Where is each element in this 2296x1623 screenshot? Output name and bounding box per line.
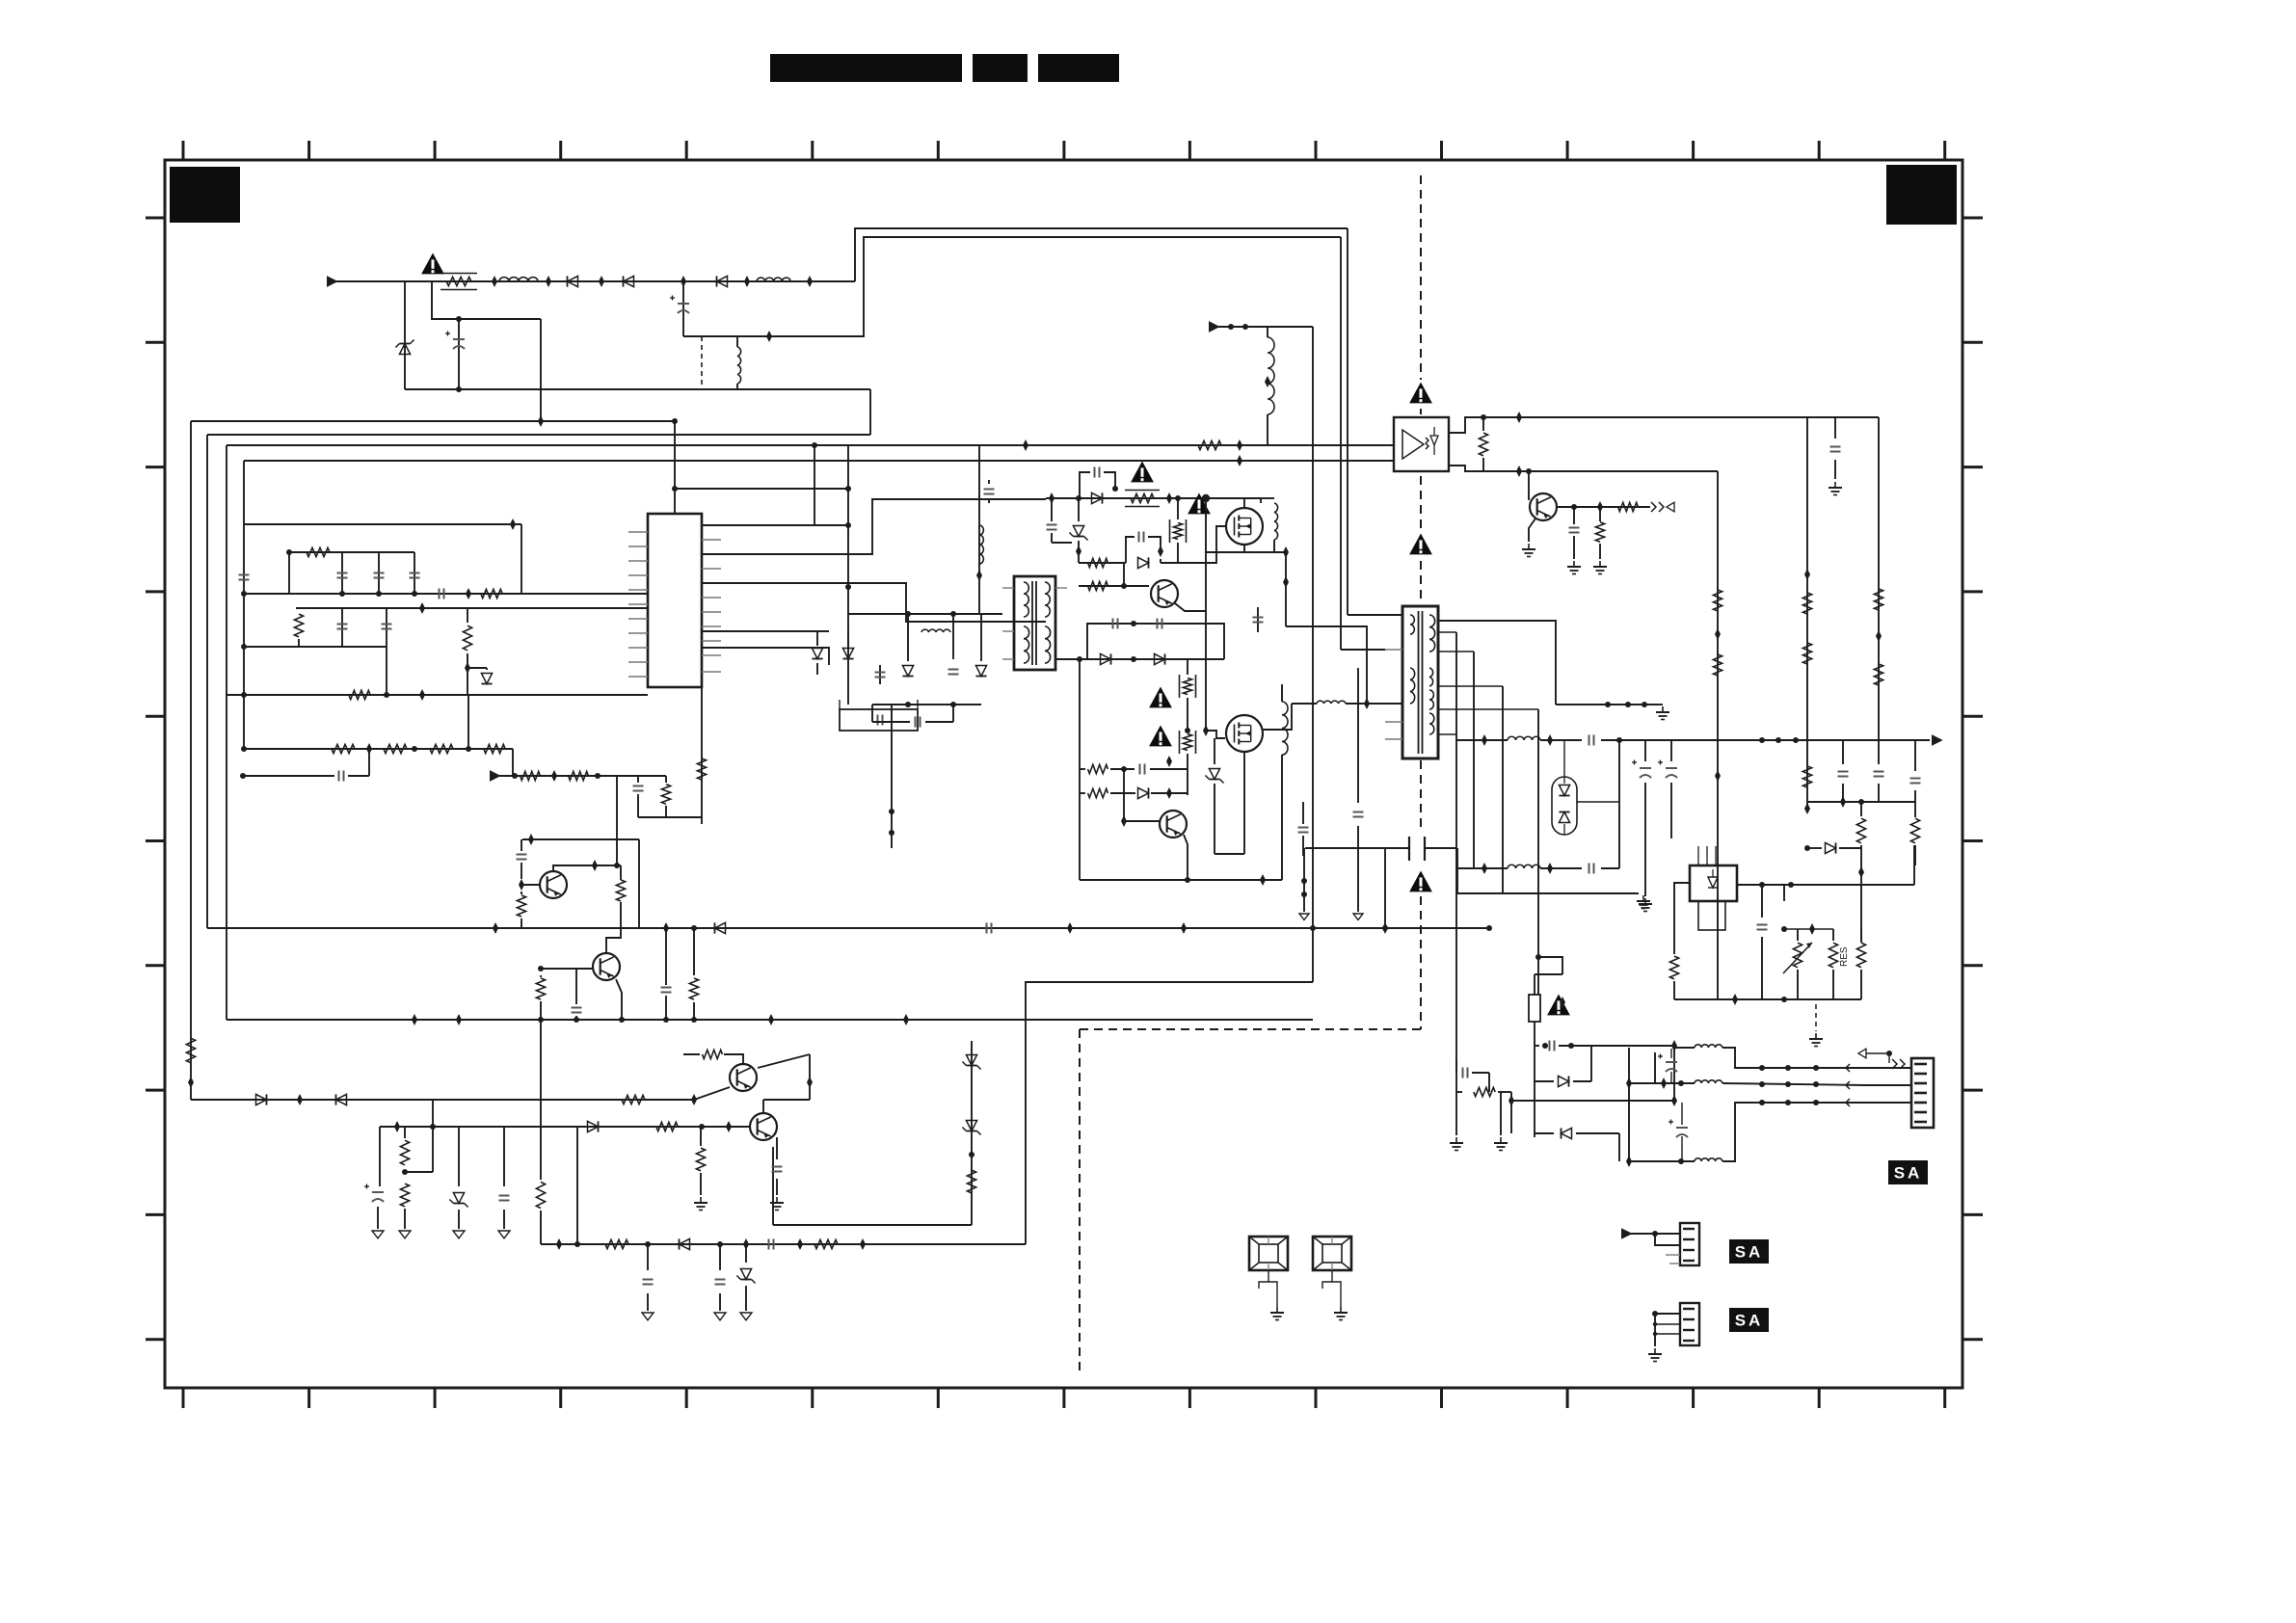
divider x1875 — [1806, 417, 1808, 809]
black square top-right — [1886, 165, 1957, 225]
bottom rail y1291 — [540, 1211, 542, 1244]
secondary top rail y731 — [1438, 621, 1556, 705]
harness line3 from below — [1629, 1160, 1695, 1162]
junction diamond y349 — [766, 331, 772, 342]
junction diamonds y1058 — [412, 1014, 417, 1025]
resistor R831 — [620, 865, 622, 880]
arrow signal out top — [1858, 1049, 1866, 1058]
zener D871 — [458, 1127, 460, 1186]
resistor inline B3 — [1198, 440, 1221, 449]
wire rail up corner — [855, 228, 1348, 281]
opto right bottom wire y489 — [1449, 466, 1718, 471]
resistor R841 — [1595, 522, 1604, 542]
pins above U803 — [1697, 846, 1699, 865]
inductor L801 — [499, 278, 538, 281]
junction y963 diamond — [1382, 922, 1388, 934]
cap loop y557 — [1126, 537, 1135, 563]
transistor Q809 — [1151, 580, 1178, 607]
pad symbol P1 — [1249, 1237, 1288, 1270]
resistor R830 — [517, 895, 525, 917]
driver transformer T801 — [1014, 576, 1055, 670]
U803 small box below — [1698, 901, 1725, 930]
resistor R825 — [569, 771, 589, 780]
connector CN802 — [1680, 1223, 1699, 1265]
choke top mosfet — [1260, 498, 1262, 503]
electrolytic C896 — [1681, 1103, 1683, 1125]
potentiometer RV1 — [1793, 943, 1802, 968]
cap C890 x1511 bottom — [1455, 1060, 1457, 1073]
emitter Q806 to gnd — [1529, 519, 1535, 542]
wire y507 from IC top — [672, 486, 678, 492]
dashed stub — [701, 336, 703, 389]
CN803 wires — [1652, 1311, 1658, 1317]
wire IC right to x880 — [702, 524, 848, 526]
open arrow returns — [1303, 848, 1305, 912]
IC pin stubs left — [628, 531, 648, 533]
resistor R826 vertical — [661, 785, 670, 804]
SA badge 1 — [1888, 1160, 1928, 1184]
gate wire Q804 — [1206, 731, 1225, 738]
bus vertical x=253 — [243, 461, 245, 749]
secondary bottom y927 — [1457, 892, 1639, 894]
bottom rail y913 — [1080, 879, 1282, 881]
harness line1 — [1674, 1047, 1695, 1049]
diode D815 — [1092, 492, 1103, 503]
fusible resistor R816 — [1131, 493, 1154, 502]
resistor pair x420 — [400, 1140, 409, 1165]
gate drive wire A — [702, 499, 1046, 554]
primary feed inductor y730 — [1292, 703, 1317, 705]
resistor row y=777 — [244, 748, 513, 750]
resistors R820-R823 — [332, 744, 355, 753]
resistor hanging x720 — [693, 928, 695, 975]
wire from x1596 corner — [1538, 957, 1562, 974]
junction diamonds B3 B4 — [1237, 439, 1242, 451]
MOSFET Q803 — [1226, 508, 1263, 545]
cap C840 — [948, 669, 959, 671]
cap C861 at x1904 — [1834, 417, 1836, 439]
cap row y647 — [1087, 624, 1224, 659]
transistor Q805 driver low — [1160, 811, 1187, 838]
arrow line y=805 — [490, 770, 501, 782]
RC ladder row1 wire — [244, 523, 521, 525]
gate wire to mosfet — [1178, 526, 1226, 563]
vertical x802 up — [772, 1147, 774, 1225]
wire drop to C802 — [432, 281, 541, 319]
long vertical x1362 — [1312, 327, 1314, 982]
cap inline y963 — [986, 923, 988, 934]
rail y=1019 junction — [1310, 925, 1316, 931]
resistor R824 — [521, 771, 541, 780]
row y805 left cap — [243, 775, 334, 777]
diode D820 — [902, 666, 913, 677]
caps under rail right — [1842, 740, 1844, 764]
inductor L802 — [757, 278, 790, 281]
cap C851 — [1302, 802, 1304, 824]
vertical x486 from ladder — [467, 695, 469, 749]
resistor R873 — [605, 1239, 628, 1248]
junction node y805 — [551, 770, 557, 782]
collector wire y526 — [1557, 506, 1650, 508]
optocoupler U802 — [1394, 417, 1449, 471]
emitter Q802 wire — [616, 979, 622, 1020]
vertical x925 drop — [891, 705, 893, 848]
svg-text:SA: SA — [1735, 1243, 1764, 1262]
left leg cap — [1051, 498, 1053, 521]
caps on row1 — [341, 552, 343, 594]
vertical link x1437 — [1384, 848, 1386, 928]
vertical x1251 gate link — [1205, 675, 1207, 731]
diode D860 — [1535, 1080, 1554, 1082]
junction on B1 — [538, 415, 544, 427]
harness line2 — [1629, 1082, 1695, 1084]
wire regulator left loop — [1674, 883, 1690, 954]
caps to open gnd below y1291 — [647, 1244, 649, 1270]
wire x561 long vertical VCC rail — [540, 319, 542, 421]
resistor R850 — [1669, 956, 1678, 979]
vertical base x1166 — [1123, 769, 1125, 821]
arrow node feed y339 — [1209, 321, 1220, 333]
snubber diodes — [814, 445, 815, 525]
junction diamonds on mains rail — [492, 276, 497, 287]
resistor R813 — [349, 690, 370, 699]
SA badge 2 — [1729, 1239, 1769, 1264]
T802 pin stubs left — [1385, 649, 1402, 651]
zener D873 — [770, 1243, 772, 1245]
secondary rect line y768 — [1456, 739, 1508, 741]
IC U801 control PWM — [648, 514, 702, 687]
diode feed Q808 — [588, 1121, 599, 1131]
elcap C875 — [379, 1127, 381, 1186]
vertical x880 — [847, 445, 849, 705]
resistor R840 — [1479, 433, 1487, 456]
svg-text:RES: RES — [1839, 946, 1850, 967]
bus vertical x=235 — [226, 445, 227, 1020]
vertical x599 — [576, 1127, 578, 1244]
electrolytic C870 C871 — [1644, 740, 1646, 761]
title redaction bars — [770, 54, 962, 82]
vertical x663 right — [638, 839, 640, 928]
transistor Q806 — [1530, 493, 1557, 520]
shunt regulator U803 box — [1690, 865, 1737, 901]
row2 resistor — [294, 614, 303, 637]
cap C880 — [1759, 882, 1765, 888]
res row y608 — [1079, 585, 1149, 587]
wire corner to nested bus — [869, 389, 871, 435]
TVS oval D850 — [1552, 777, 1577, 835]
diode D851 — [1807, 847, 1822, 849]
warning triangle fuse — [1547, 995, 1570, 1016]
diode D802 — [624, 276, 634, 286]
T802 pins right — [1438, 631, 1456, 633]
cap C876 — [503, 1127, 505, 1186]
main output rail y768 — [1619, 739, 1930, 741]
choke bottom mosfet — [1282, 702, 1288, 755]
node wire y832 — [1807, 801, 1915, 803]
row2 bottom wire — [244, 646, 387, 648]
warning triangle 2 — [1188, 493, 1211, 515]
regulator divider wires — [1860, 848, 1862, 943]
T801 pin stubs — [1002, 587, 1014, 589]
resistor R811 — [481, 589, 502, 598]
cap link y848 — [666, 816, 702, 818]
electrolytic C801 — [682, 281, 684, 336]
regulator bottom rail — [1674, 998, 1861, 1000]
diode D810 — [486, 668, 488, 670]
wire inner rail — [683, 237, 1341, 336]
bus line B3 y=462 to opto — [227, 444, 1394, 446]
caps snubber — [879, 665, 881, 684]
transistor Q808 — [750, 1113, 777, 1140]
row1 bottom wire — [244, 593, 648, 595]
resistor R852 — [1856, 943, 1865, 968]
svg-text:SA: SA — [1894, 1164, 1923, 1183]
warning triangles MOSFET2 — [1149, 687, 1172, 708]
cap C850 — [1257, 607, 1259, 632]
wire from Q804 to y730 — [1262, 704, 1292, 730]
fuse F850 — [1529, 995, 1540, 1022]
Q808 collector up — [762, 1100, 764, 1112]
cap C810 left inline — [239, 574, 250, 576]
opto input wires — [1393, 444, 1395, 446]
resistor R872 x561 — [536, 1182, 545, 1208]
verticals to transformer — [1347, 228, 1348, 615]
box component X801 — [840, 709, 918, 731]
lower gate network left leg — [1079, 659, 1081, 880]
transistor Q802 — [593, 953, 620, 980]
vertical drops from T802 — [1455, 632, 1457, 1073]
rectifier row y684 — [1055, 658, 1224, 660]
RC ladder row2 wire — [296, 607, 422, 609]
input arrow J1 — [327, 276, 338, 287]
divider x1781 — [1717, 471, 1719, 999]
cap hanging x691 — [665, 928, 667, 985]
diode D803 — [717, 276, 728, 286]
gate drive rail y517 — [1046, 497, 1261, 499]
drawing frame — [165, 160, 1962, 1388]
Q809 emitter wire — [1175, 603, 1206, 611]
cap C841 — [915, 717, 917, 728]
diode D861 — [1535, 1132, 1554, 1134]
diode D801 — [568, 276, 578, 286]
base network Q802 — [538, 966, 544, 971]
dots y963 right — [1382, 925, 1388, 931]
long rail y=963 — [207, 927, 1489, 929]
aux caps x1016 — [978, 445, 980, 614]
row1 components wire — [289, 551, 414, 553]
aux bottom wire — [872, 704, 981, 705]
diode line y1141 — [191, 1099, 433, 1101]
resistor R860 — [1456, 1091, 1462, 1093]
connector CN801 — [1911, 1058, 1934, 1128]
res row y584 — [1079, 562, 1126, 564]
vertical x1949 to output caps — [1878, 417, 1880, 740]
inductor L803 vertical — [737, 347, 741, 384]
wire IC right short — [702, 630, 829, 632]
bus line B2 y=448 — [207, 434, 870, 436]
diode on y963 — [715, 922, 726, 933]
link x449 to resistor junction — [432, 1127, 434, 1172]
Q808 bias parts — [700, 1127, 702, 1146]
fusible resistor R801 — [446, 277, 471, 285]
junction diamond B3 mid — [1023, 439, 1028, 451]
warning triangle fres1 — [1131, 462, 1154, 483]
cap across x1409 — [1357, 668, 1359, 803]
bus line B4 y=478 to opto — [244, 460, 1394, 462]
Q805 emitter wire — [1184, 835, 1188, 880]
wire y1271 — [773, 1224, 972, 1226]
junction diamonds y963 — [493, 922, 498, 934]
electrolytic C802 — [456, 316, 462, 322]
SA badge 3 — [1729, 1308, 1769, 1332]
electrolytic C895 — [1654, 1052, 1656, 1083]
res row y798 — [1080, 768, 1085, 770]
row3 wire — [226, 694, 468, 696]
IC pin stubs right — [702, 524, 721, 526]
cap C881 — [1737, 884, 1914, 886]
bus line B1 y=433 — [191, 420, 675, 422]
aux rect cluster — [905, 611, 911, 617]
collector wire Q801 — [553, 865, 621, 870]
pad symbol P2 — [1313, 1237, 1351, 1270]
resistor R870 left rail — [186, 1038, 195, 1063]
cap C820 — [617, 775, 666, 777]
cap C877 inline — [768, 1239, 770, 1250]
base wire Q801 — [519, 879, 524, 891]
frame tick marks — [182, 141, 185, 160]
vertical x1232 from rectifier row — [1187, 659, 1188, 675]
vertical x1334 down — [1285, 552, 1287, 626]
resistor R827 on x728 — [701, 687, 703, 824]
cap C830 inline — [521, 839, 522, 851]
connector CN803 — [1680, 1303, 1699, 1345]
source wire y573 — [1243, 544, 1245, 552]
corner to x1064 — [1026, 982, 1313, 1244]
Q807 base line y1141 — [433, 1099, 694, 1101]
bus vertical x=198 — [190, 421, 192, 1100]
IC top pin wire to B1 — [674, 421, 676, 514]
transistor Q801 — [540, 871, 567, 898]
MOSFET Q804 — [1226, 715, 1263, 752]
resistor R874 — [814, 1239, 838, 1248]
resistors under y832 — [1856, 818, 1865, 843]
vertical x1251 — [1205, 498, 1207, 675]
zener D816 — [1078, 498, 1080, 521]
cap row y1085 — [1542, 1043, 1548, 1049]
black square top-left — [170, 167, 240, 223]
harness left verticals — [1628, 1048, 1630, 1161]
inductor vertical x1315 — [1267, 327, 1268, 337]
transistor Q807 — [730, 1064, 757, 1091]
cap C860 — [1573, 507, 1575, 524]
junction diamonds y777 — [366, 743, 372, 755]
resistor R812 vertical — [467, 608, 468, 623]
fusible resistor vertical R817 — [1173, 523, 1182, 540]
node C junction — [681, 276, 686, 287]
wire to transformer from choke — [1286, 626, 1367, 704]
resistor R851 RES label — [1829, 943, 1837, 968]
long rail y=1058 — [227, 1019, 1313, 1021]
Q807 collector resistor — [724, 1054, 743, 1063]
drain wire Q803 — [1243, 498, 1245, 509]
warning triangle near R fusible — [421, 253, 444, 275]
resistor R842 to arrow — [1618, 502, 1639, 511]
source wire Q804 — [1243, 752, 1245, 854]
wire y871 top link — [522, 838, 639, 840]
lower secondary line y901 — [1456, 867, 1508, 869]
lower gate fusible resistors — [1183, 678, 1191, 695]
Y-cap across barrier — [1305, 847, 1409, 849]
wire to Q806 base — [1528, 471, 1530, 500]
zener D804 — [404, 281, 406, 389]
cap C831 — [575, 969, 577, 1004]
diode gray y584 — [1138, 557, 1149, 568]
wire mains rail — [336, 280, 855, 282]
diode D872 — [680, 1238, 690, 1249]
CN802 wires — [1621, 1228, 1633, 1239]
junction dots row1 — [286, 549, 292, 555]
junction on B1 IC drop — [672, 418, 678, 424]
ground rail primary — [405, 388, 870, 390]
bus vertical x=215 — [206, 435, 208, 928]
dashed stub to gnd — [1815, 1004, 1817, 1031]
cap C811 inline — [439, 589, 441, 599]
res row y823 — [1080, 792, 1085, 794]
main transformer T802 — [1402, 606, 1438, 758]
zener chain x1008 — [971, 1041, 973, 1225]
zener D830 gray — [1214, 738, 1215, 764]
wire y1142 — [1511, 1100, 1674, 1102]
resistor R810 — [307, 547, 330, 556]
isolation dashed barrier — [1420, 175, 1422, 380]
resistor R832 — [536, 978, 545, 999]
resistor below rail x1875 — [1802, 766, 1811, 787]
speedup cap loop — [1080, 472, 1090, 498]
gnd right — [1500, 1092, 1502, 1135]
node row y1169 — [380, 1126, 750, 1128]
opto right top wire y433 — [1449, 417, 1879, 433]
vertical x640 to Q801 — [616, 776, 618, 865]
svg-text:SA: SA — [1735, 1312, 1764, 1330]
diode D821 — [975, 666, 986, 677]
row2 caps — [341, 608, 343, 647]
gate drive wire B — [702, 583, 1046, 622]
